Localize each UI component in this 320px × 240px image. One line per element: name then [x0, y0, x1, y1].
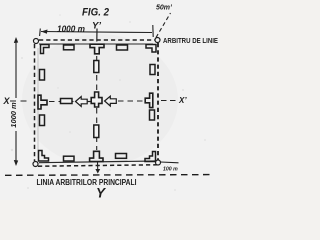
judge box right 1 [150, 65, 155, 75]
tick from Y' to top edge [96, 29, 98, 42]
pole marker on X axis left [61, 99, 73, 104]
svg-text:FIG. 2: FIG. 2 [82, 6, 109, 18]
corner circle top-right [155, 38, 160, 43]
svg-text:LINIA ARBITRILOR PRINCIPALI: LINIA ARBITRILOR PRINCIPALI [37, 178, 137, 187]
diagonal dashed leader to linesman (top right) [156, 13, 171, 38]
svg-text:1000 m: 1000 m [57, 24, 85, 34]
corner timer mark bottom-right [145, 152, 156, 162]
judge box left 1 [40, 70, 45, 81]
vertical dimension line 1000 m (left) [15, 40, 17, 98]
bottom-right 100 m offset line [161, 161, 179, 164]
left edge faint inner line [37, 48, 39, 158]
T mark top centre [90, 44, 104, 54]
judge box right 2 [150, 110, 155, 120]
svg-text:100 m: 100 m [163, 167, 178, 173]
judge box bottom 1 [64, 156, 75, 161]
top edge inner solid line [39, 43, 153, 45]
wind arrow left of centre [76, 97, 88, 107]
T mark right centre [145, 93, 153, 107]
corner circle bottom-right [156, 160, 161, 165]
horizontal dimension line 1000 m (top) [41, 32, 152, 33]
pole marker on Y axis upper [94, 61, 99, 73]
judge box top 2 [117, 45, 128, 50]
svg-text:ARBITRU DE LINIE: ARBITRU DE LINIE [163, 38, 218, 45]
svg-text:X: X [3, 96, 11, 106]
svg-text:1000 m: 1000 m [9, 102, 18, 128]
pole marker on Y axis lower [94, 125, 99, 138]
corner timer mark top-right [146, 45, 156, 53]
bottom edge outer dashed border [38, 165, 157, 166]
wind arrow right of centre [105, 96, 117, 106]
dimension extension tick (right end) [152, 25, 154, 37]
right edge dashed border [157, 43, 159, 160]
bottom edge inner solid line [39, 161, 156, 163]
paper background [0, 0, 220, 200]
corner circle top-left [34, 39, 39, 44]
corner circle bottom-left [33, 162, 38, 167]
corner timer mark top-left [41, 45, 50, 54]
principal judges dashed line [5, 174, 213, 177]
T mark left centre [38, 95, 47, 109]
centre cross mark [91, 92, 102, 107]
judge box top 1 [64, 45, 75, 50]
horizontal centreline (X axis) dashes [10, 100, 29, 102]
left edge dashed border [34, 44, 36, 161]
vertical centreline (Y axis) dashes [96, 56, 98, 91]
top edge outer dashed border [39, 39, 155, 41]
judge box bottom 2 [116, 154, 127, 159]
svg-text:X’: X’ [178, 96, 187, 105]
judge box left 2 [40, 115, 45, 126]
corner timer mark bottom-left [39, 151, 49, 162]
wire dash between arrow and cross [88, 101, 91, 103]
Y axis extension below field [97, 162, 99, 173]
svg-text:50m’: 50m’ [156, 5, 173, 12]
T mark bottom centre (inverted) [90, 151, 103, 161]
